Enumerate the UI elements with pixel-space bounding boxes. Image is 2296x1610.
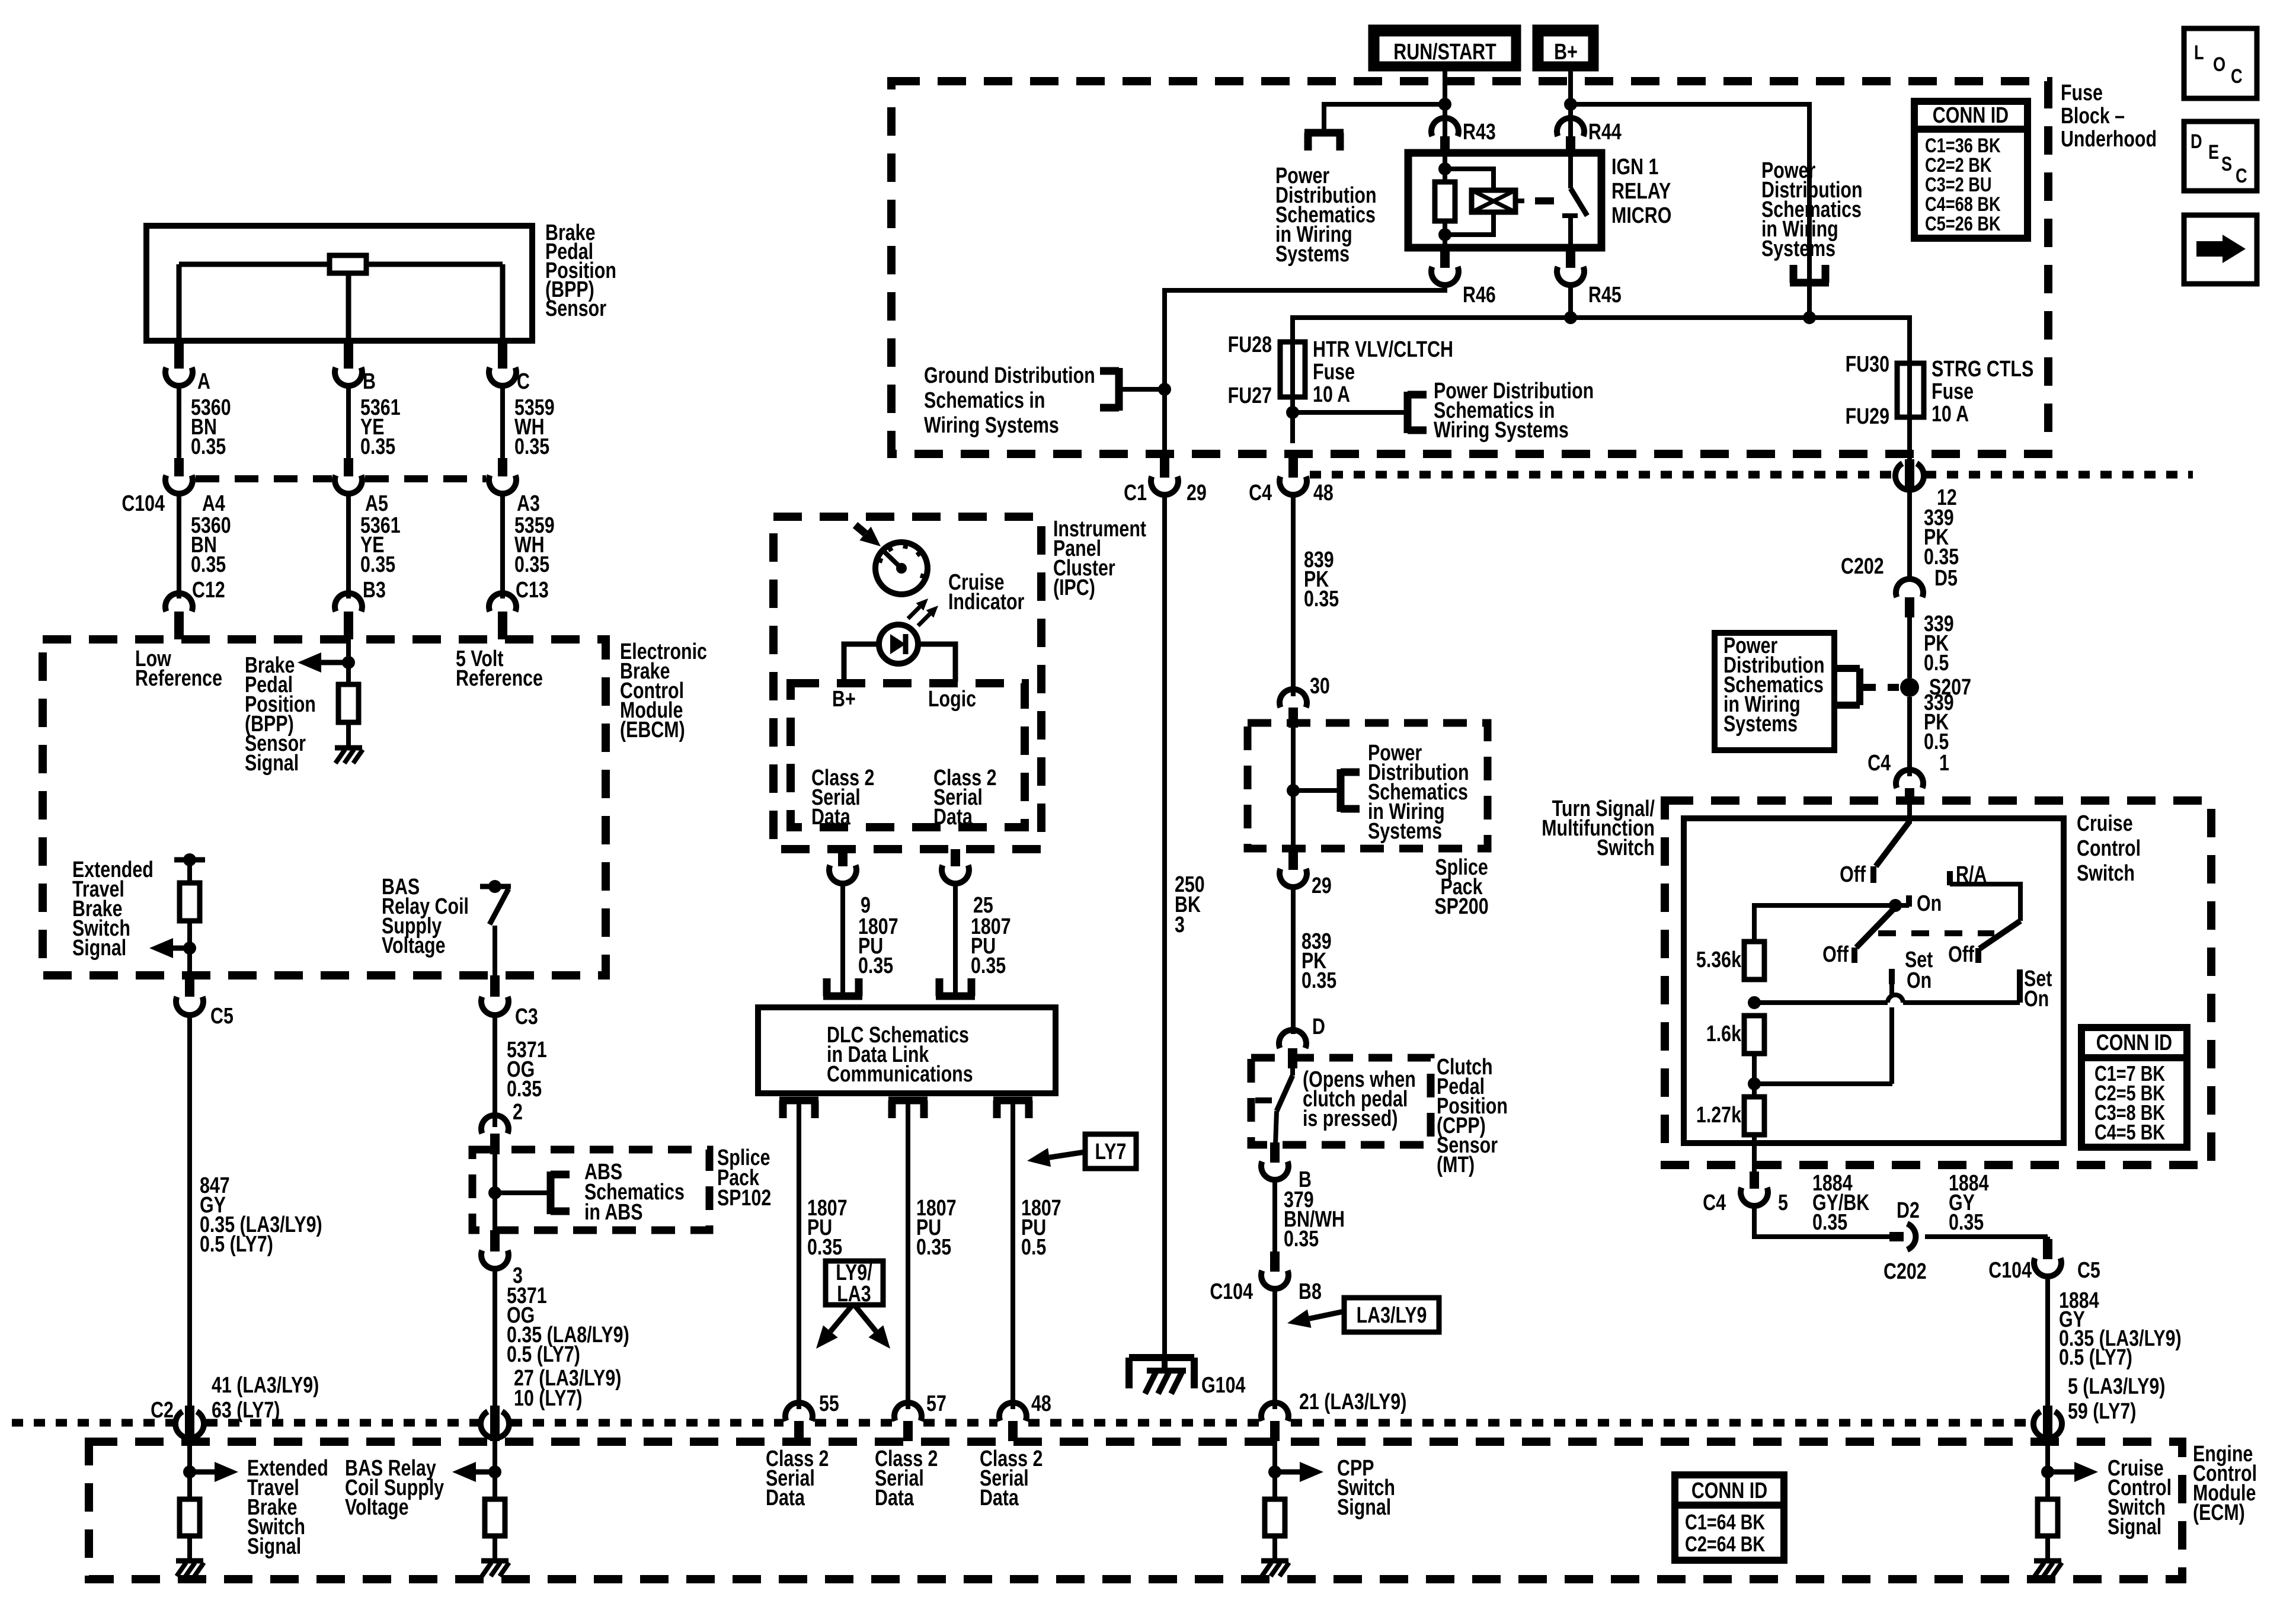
svg-text:C: C [2236,164,2247,187]
IPC pin 25 [951,849,960,866]
svg-text:C4: C4 [1868,751,1891,776]
svg-text:Off: Off [1840,862,1866,887]
resistor 1.27k [1744,1097,1764,1135]
svg-text:21 (LA3/LY9): 21 (LA3/LY9) [1299,1390,1406,1414]
svg-text:Systems: Systems [1723,712,1798,737]
svg-text:RUN/START: RUN/START [1393,40,1496,65]
connector C5 circle (cruise) [2033,1411,2062,1438]
bracket power distribution right [1790,279,1829,287]
DLC bracket right [936,993,975,1000]
DLC bracket left [823,993,862,1000]
svg-text:10 (LY7): 10 (LY7) [514,1386,582,1411]
svg-text:in ABS: in ABS [584,1200,643,1225]
svg-text:55: 55 [819,1391,839,1416]
LED wires to logic box [844,644,879,682]
arrow Extended Travel Brake Switch Signal [173,946,190,951]
svg-text:HTR VLV/CLTCH: HTR VLV/CLTCH [1313,337,1453,362]
connector C104 dashed line [196,475,332,482]
wire B+ down [1568,71,1573,136]
svg-text:Reference: Reference [456,666,543,691]
wire R46 to C1 [1165,284,1445,456]
wire 1.27k to C4 [1752,1135,1757,1172]
wire through ABS box [493,1154,497,1230]
svg-text:29: 29 [1187,481,1207,505]
bracket ABS [547,1172,555,1214]
connector C104 B8 [1270,1251,1280,1272]
svg-text:Systems: Systems [1275,242,1350,267]
connector C3 circle (BAS) [481,1411,509,1438]
LY9/LA3 callout box [826,1261,883,1305]
EBCM connector C3 [490,975,500,997]
BPP pin B [344,341,353,369]
connector C4 pin 5 (cruise out) [1750,1172,1759,1189]
svg-text:0.35: 0.35 [191,552,226,577]
DLC lower bracket 48 [993,1097,1032,1105]
junction dot 5.36k [1748,996,1761,1009]
BAS switch blade [490,889,509,924]
svg-text:C202: C202 [1841,554,1884,579]
CONN ID table fuse block [1914,101,2028,238]
svg-text:FU29: FU29 [1846,404,1889,429]
Fuse Block dashed box [891,81,2048,454]
svg-text:57: 57 [926,1391,946,1416]
set-on left contact [1889,969,1895,984]
wire RUN/START down [1443,71,1447,136]
svg-text:Signal: Signal [245,751,299,776]
svg-text:Data: Data [875,1486,914,1510]
svg-text:Wiring Systems: Wiring Systems [1434,418,1569,443]
resistor 5.36k [1744,942,1764,980]
EBCM dashed box [43,639,606,975]
RUN/START terminal box [1373,30,1516,66]
svg-text:C: C [517,369,530,394]
svg-text:On: On [2024,987,2049,1012]
splice connector 2 [481,1115,509,1134]
svg-text:Wiring Systems: Wiring Systems [924,413,1059,438]
Power Distribution box right [1715,633,1834,750]
relay actuator dashes [1515,199,1524,203]
On contact [1906,895,1912,907]
svg-text:0.35: 0.35 [1812,1210,1847,1235]
junction dot SP200 [1287,784,1300,797]
arrow box [2184,215,2257,284]
svg-text:63 (LY7): 63 (LY7) [212,1398,280,1423]
svg-text:(EBCM): (EBCM) [620,718,685,742]
ECM dotted connector line [12,1419,174,1427]
ECM cruise chain [2045,1441,2050,1499]
wire to bracket SP200 [1293,788,1341,793]
svg-text:Ground Distribution: Ground Distribution [924,363,1095,388]
svg-text:SP102: SP102 [717,1186,771,1211]
svg-text:C3: C3 [515,1004,538,1029]
horizontal wire set-on row [1754,1000,1888,1005]
svg-text:41 (LA3/LY9): 41 (LA3/LY9) [212,1373,319,1398]
svg-text:B8: B8 [1299,1279,1322,1304]
ECM BAS chain [493,1441,497,1499]
svg-text:C104: C104 [1210,1279,1253,1304]
BPP wiper resistor [330,255,366,273]
svg-text:Fuse: Fuse [1313,360,1355,385]
wire ext travel [187,860,192,883]
svg-text:Sensor: Sensor [545,296,606,321]
svg-text:C5: C5 [2077,1258,2100,1283]
DLC lower bracket 57 [888,1097,928,1105]
LED indicator [879,625,918,664]
svg-text:0.5: 0.5 [1924,651,1949,676]
svg-text:Off: Off [1822,942,1849,967]
svg-text:Switch: Switch [2077,861,2135,886]
connector C1 (fuse block bottom) [1160,456,1169,478]
svg-text:0.35: 0.35 [514,434,549,459]
junction dot below fuse [1286,406,1299,419]
svg-text:Off: Off [1948,942,1974,967]
svg-text:Control: Control [2077,836,2141,861]
LY9/LA3 arrow left [830,1306,852,1331]
svg-text:0.5 (LY7): 0.5 (LY7) [2059,1345,2132,1370]
LA3/LY9 arrow [1309,1311,1344,1318]
CONN ID table ECM [1675,1475,1784,1560]
svg-text:10 A: 10 A [1313,382,1350,407]
svg-text:0.35: 0.35 [514,552,549,577]
svg-text:C5=26 BK: C5=26 BK [1925,212,2001,235]
wire R45 to bus [1568,284,1573,318]
wire A inside box [177,264,182,341]
class2 wire 57 [906,1100,910,1409]
wire ext travel lower [187,921,192,975]
svg-text:0.5 (LY7): 0.5 (LY7) [507,1342,580,1367]
svg-text:Fuse: Fuse [2061,81,2103,105]
svg-text:0.35: 0.35 [807,1235,842,1260]
svg-text:R45: R45 [1588,283,1622,308]
svg-text:59 (LY7): 59 (LY7) [2068,1399,2136,1424]
bracket power distribution left [1304,129,1344,137]
svg-text:29: 29 [1312,873,1332,898]
svg-text:Systems: Systems [1368,819,1442,844]
svg-text:Indicator: Indicator [948,590,1024,614]
svg-text:Communications: Communications [827,1062,973,1087]
cruise blade off2 [1856,907,1895,948]
svg-text:0.5: 0.5 [1021,1235,1046,1260]
svg-text:FU27: FU27 [1228,383,1272,408]
svg-text:R46: R46 [1463,283,1496,308]
svg-text:C4: C4 [1703,1190,1726,1215]
ECM CPP chain [1272,1441,1277,1499]
set-on left wire with hop [1889,984,1894,996]
svg-text:0.35: 0.35 [360,434,395,459]
bracket ground distribution [1115,368,1123,411]
LY9/LA3 arrow right [855,1306,876,1331]
svg-text:B+: B+ [1554,40,1578,65]
svg-text:1.27k: 1.27k [1696,1103,1742,1128]
svg-text:0.35: 0.35 [1949,1210,1984,1235]
svg-text:C12: C12 [192,578,225,603]
CPP switch blade [1290,1068,1295,1076]
fuse FU28/FU27 HTR VLV/CLTCH [1280,342,1305,397]
svg-text:R44: R44 [1588,120,1622,145]
svg-text:SP200: SP200 [1434,894,1488,919]
svg-text:Underhood: Underhood [2061,127,2157,152]
DLC lower bracket 55 [779,1097,818,1105]
svg-text:B: B [363,369,376,394]
svg-text:0.35: 0.35 [191,434,226,459]
connector C104 pins A4 A5 A3 [174,458,184,476]
splice S207 [1900,678,1919,697]
junction dot ext travel arrow [183,942,196,955]
Cruise Control Switch inner box [1684,818,2064,1143]
junction dot ext travel [183,853,196,866]
DLC Schematics box [758,1007,1056,1093]
svg-text:0.35: 0.35 [1284,1227,1319,1251]
relay coil resistor [1443,153,1447,182]
svg-text:0.35: 0.35 [1302,968,1336,993]
set-on right contact [2017,969,2023,1003]
svg-text:D: D [2191,130,2202,153]
BPP pin C [498,341,507,369]
svg-text:Block –: Block – [2061,104,2125,129]
svg-text:Signal: Signal [1337,1495,1391,1520]
connector R45 [1566,248,1575,268]
svg-text:D2: D2 [1897,1198,1920,1223]
DESC box [2184,121,2257,191]
svg-text:FU30: FU30 [1846,352,1889,377]
wire wiper to B pin [346,273,351,341]
bracket SP200 [1337,769,1345,812]
svg-text:0.35: 0.35 [971,953,1006,978]
B+ terminal box [1537,30,1594,66]
wire to power distr bracket [1324,104,1445,132]
svg-text:R43: R43 [1463,120,1496,145]
svg-text:0.35: 0.35 [858,953,893,978]
svg-text:MICRO: MICRO [1611,203,1671,228]
class2 wire 48 [1011,1100,1015,1409]
svg-text:C: C [2231,65,2243,88]
svg-text:STRG CTLS: STRG CTLS [1932,357,2033,382]
svg-text:LY7: LY7 [1095,1140,1127,1164]
svg-text:LA3/LY9: LA3/LY9 [1357,1303,1427,1328]
svg-text:Signal: Signal [247,1534,301,1559]
gauge icon [875,542,928,594]
ABS splice dashed box [472,1150,709,1230]
svg-text:C13: C13 [516,578,549,603]
connector C4 (fuse block bottom) [1288,456,1298,478]
svg-text:Reference: Reference [135,666,222,691]
ground G104 [1129,1354,1194,1361]
svg-text:C4: C4 [1249,481,1272,505]
IGN 1 relay box [1408,153,1601,248]
svg-text:48: 48 [1031,1391,1051,1416]
class2 55 connector [785,1403,813,1421]
connector 12 circle [1895,463,1924,490]
svg-text:5: 5 [1778,1190,1788,1215]
svg-text:S: S [2221,152,2232,175]
BAS wire lower [493,926,497,975]
svg-text:5 (LA3/LY9): 5 (LA3/LY9) [2068,1374,2165,1399]
svg-text:CONN ID: CONN ID [2096,1030,2172,1055]
wire to D2 [1754,1205,1889,1237]
svg-text:Data: Data [980,1486,1019,1510]
resistor BPP signal [338,684,359,722]
svg-text:Fuse: Fuse [1932,379,1974,404]
cruise wire on to resistor [1754,905,1909,942]
svg-text:Voltage: Voltage [345,1495,409,1520]
svg-text:Signal: Signal [72,936,126,961]
svg-text:(ECM): (ECM) [2193,1500,2245,1525]
IPC dashed box [773,517,1041,849]
BPP potentiometer track [179,262,330,267]
svg-text:0.35: 0.35 [916,1235,951,1260]
fuse FU30/FU29 STRG CTLS [1897,363,1924,417]
connector C2 circle [175,1411,204,1438]
svg-text:CONN ID: CONN ID [1933,103,2009,128]
connector 3 [490,1230,500,1251]
connector R43 [1431,118,1459,136]
connector D2 [1889,1232,1904,1241]
svg-text:Signal: Signal [2108,1515,2161,1539]
wire to ground [346,722,351,748]
class2 48 connector [999,1403,1027,1421]
connector B (CPP out) [1270,1142,1280,1163]
svg-text:Schematics in: Schematics in [924,388,1045,413]
connector R46 [1440,248,1450,268]
IPC inner dashed box [791,683,1025,827]
CONN ID table cruise switch [2081,1028,2187,1147]
BPP pin A [174,341,184,369]
junction dot SP102 [488,1186,501,1199]
svg-text:A3: A3 [517,491,540,516]
svg-text:Data: Data [933,805,973,830]
connector R44 [1557,118,1584,136]
svg-text:RELAY: RELAY [1611,179,1671,204]
svg-text:O: O [2213,53,2225,76]
svg-text:C2=64 BK: C2=64 BK [1685,1532,1766,1556]
junction dot cruise on [1889,899,1902,912]
bracket S207 [1834,665,1860,672]
gauge pointer arrow [855,525,865,533]
relay coil symbol [1445,169,1494,190]
svg-text:C5: C5 [210,1004,234,1029]
svg-text:3: 3 [1175,913,1185,937]
wire C inside box [500,264,506,341]
CPP 21 connector [1261,1403,1288,1421]
svg-text:On: On [1917,891,1942,916]
svg-text:Voltage: Voltage [382,933,446,958]
Turn signal outer dashed box [1665,801,2211,1165]
LOC box [2184,28,2257,98]
svg-text:C1=64 BK: C1=64 BK [1685,1510,1766,1534]
ECM ext travel chain [187,1441,192,1499]
svg-text:Data: Data [811,805,851,830]
svg-text:C104: C104 [121,491,165,516]
svg-text:0.35: 0.35 [507,1077,542,1102]
LED lightning rays [918,614,930,626]
connector C104 C5 [2045,1237,2050,1241]
svg-text:A5: A5 [365,491,388,516]
inline connector dotted line (C202/C104 row) [1310,471,1894,479]
svg-text:0.5 (LY7): 0.5 (LY7) [200,1232,273,1257]
class2 wire 55 [797,1100,801,1409]
svg-text:C104: C104 [1988,1258,2032,1283]
svg-text:LA3: LA3 [837,1282,871,1307]
cruise switch blade off1 [1876,821,1910,866]
resistor 1.6k [1744,1016,1764,1054]
BAS relay switch stub [480,884,511,889]
R/A blade [1980,921,2020,949]
resistor ext travel [180,883,200,921]
actuator dashed link [1878,930,1994,936]
bracket power distribution mid [1404,392,1412,433]
svg-text:E: E [2208,140,2219,164]
wire through SP200 [1291,728,1296,849]
svg-text:On: On [1907,968,1932,993]
Extended Travel stub bar [174,857,205,863]
junction dot 1.6k [1748,1077,1761,1090]
svg-text:is pressed): is pressed) [1303,1106,1398,1131]
wire to power distr bracket right [1571,104,1809,283]
CPP dashed box [1251,1058,1431,1145]
IPC pin 9 [838,849,848,866]
LY7 callout box [1085,1134,1136,1169]
svg-text:Systems: Systems [1761,236,1835,261]
svg-text:IGN 1: IGN 1 [1611,155,1658,180]
svg-text:(IPC): (IPC) [1053,575,1095,600]
svg-text:0.35: 0.35 [360,552,395,577]
svg-text:C1: C1 [1124,481,1147,505]
svg-text:CONN ID: CONN ID [1691,1478,1767,1503]
svg-text:G104: G104 [1201,1373,1245,1398]
ECM dashed box [89,1442,2182,1579]
svg-text:D5: D5 [1934,566,1958,591]
svg-text:Data: Data [766,1486,805,1510]
connector 29 [1288,849,1298,870]
svg-text:FU28: FU28 [1228,332,1272,357]
LY7 arrow [1050,1152,1085,1157]
EBCM connector C5 [185,975,194,997]
svg-text:A4: A4 [202,491,225,516]
junction dot B+ [1564,98,1577,111]
svg-text:L: L [2194,41,2204,64]
svg-text:30: 30 [1310,674,1330,699]
wire D2 to C104 [1925,1234,2048,1239]
junction dot B [342,656,355,669]
SP200 dashed box [1248,723,1488,849]
wire dot to set-on vertical [1754,1081,1892,1086]
wire bracket to C1 wire [1119,387,1165,392]
LA3/LY9 callout box [1344,1298,1439,1332]
svg-text:Switch: Switch [1597,836,1655,860]
svg-text:5.36k: 5.36k [1696,948,1742,972]
svg-text:B3: B3 [363,578,386,603]
connector C202 D5 [1896,579,1923,597]
wire to power distr bracket mid [1293,410,1408,415]
arrow Brake Pedal Position [321,660,348,665]
svg-text:10 A: 10 A [1932,402,1969,427]
svg-text:1.6k: 1.6k [1706,1022,1742,1046]
relay switch [1568,153,1573,188]
svg-text:B+: B+ [832,687,856,712]
BPP sensor signal wire inside EBCM [346,639,351,684]
svg-text:C4=5 BK: C4=5 BK [2094,1120,2166,1144]
svg-text:1: 1 [1939,751,1949,776]
BPP sensor box [146,226,532,341]
svg-text:C202: C202 [1884,1259,1927,1284]
wire to ABS bracket [495,1190,551,1195]
junction dot BAS [488,880,501,893]
power bus to fuses [1293,318,1910,363]
wire bracket B+ to bus [1807,283,1812,318]
svg-text:(MT): (MT) [1437,1153,1475,1177]
class2 57 connector [894,1403,922,1421]
svg-text:2: 2 [513,1100,523,1125]
